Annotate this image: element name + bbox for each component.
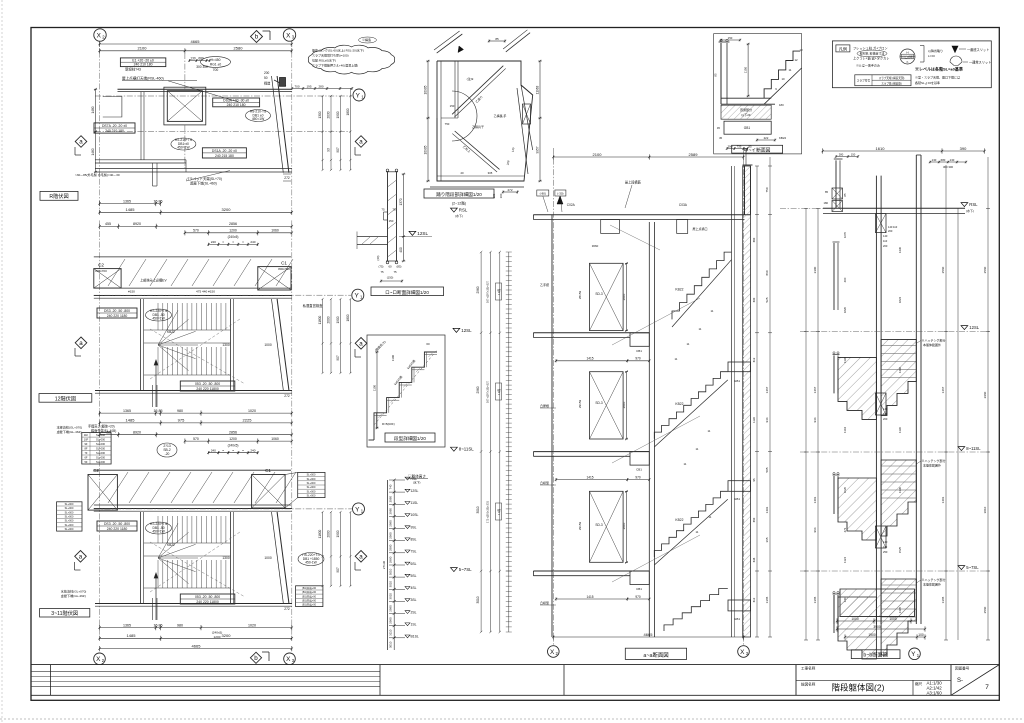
plan 12F: hatched landing band	[94, 256, 291, 258]
plan 12F: bottom dim row1	[100, 412, 292, 414]
svg-text:CB1: CB1	[636, 349, 642, 353]
svg-text:RSL: RSL	[459, 208, 468, 213]
svg-text:240: 240	[250, 240, 255, 244]
landing detail: main outline	[437, 61, 533, 181]
svg-text:SL+000: SL+000	[96, 460, 106, 464]
svg-text:C1: C1	[265, 468, 271, 473]
svg-text:SL+000: SL+000	[65, 511, 74, 514]
svg-text:450=1W: 450=1W	[152, 316, 165, 320]
svg-text:1300: 1300	[318, 111, 322, 118]
svg-text:85: 85	[495, 37, 499, 41]
svg-text:(75): (75)	[379, 265, 384, 269]
svg-text:20: 20	[460, 171, 464, 175]
svg-text:3010: 3010	[389, 593, 393, 600]
plan R-floor: left room rectangle	[103, 97, 122, 118]
section b-b: central wall	[875, 176, 877, 624]
svg-text:11F: 11F	[84, 433, 89, 437]
svg-text:8920: 8920	[133, 222, 141, 226]
svg-text:9957: 9957	[536, 146, 540, 153]
svg-text:1000: 1000	[264, 556, 272, 560]
i-i detail: top small dims	[721, 39, 740, 41]
plan 3-11F: title label	[40, 609, 90, 618]
section a-a: right wall band hatched	[743, 166, 751, 637]
grid mark a left plan R	[75, 136, 87, 148]
svg-text:(B1)天端+00: (B1)天端+00	[302, 590, 317, 594]
section a-a: opening SD-3 middle	[590, 372, 624, 439]
svg-text:9SL: 9SL	[411, 525, 417, 529]
section a-a: -80/-30 tags	[537, 190, 549, 196]
section a-a: bottom label	[625, 648, 686, 659]
svg-text:455: 455	[105, 222, 111, 226]
svg-text:1365: 1365	[813, 596, 817, 603]
svg-text:1200: 1200	[229, 229, 237, 233]
legend: filled triangle slit symbol	[952, 46, 958, 53]
step detail: slope dotted line	[374, 350, 437, 425]
svg-text:110: 110	[883, 545, 888, 549]
svg-text:6SL: 6SL	[411, 562, 417, 566]
plan 12F: right dim chain	[322, 299, 324, 373]
svg-text:1415: 1415	[586, 357, 593, 361]
svg-text:(-80): (-80)	[540, 192, 546, 196]
svg-text:130: 130	[950, 158, 955, 162]
grid mark a left plan 3-11F	[75, 551, 87, 563]
svg-text:最上段横筋: 最上段横筋	[625, 180, 641, 185]
svg-text:130: 130	[190, 56, 196, 60]
svg-text:140: 140	[883, 407, 888, 411]
svg-text:1491: 1491	[765, 506, 769, 513]
svg-text:280: 280	[318, 84, 323, 88]
svg-text:>30~-85(外毛梨 水毛梨)=40~-30: >30~-85(外毛梨 水毛梨)=40~-30	[75, 172, 120, 177]
svg-text:a: a	[359, 139, 363, 146]
svg-text:X: X	[96, 656, 101, 663]
svg-text:2100: 2100	[138, 46, 148, 51]
svg-text:※():は一番手のみ: ※():は一番手のみ	[856, 63, 880, 68]
svg-text:85: 85	[825, 190, 828, 194]
svg-text:800x?00: 800x?00	[278, 267, 290, 271]
plan R-floor: title label	[40, 191, 78, 200]
svg-text:10: 10	[781, 77, 785, 81]
section a-a: stair flight 2	[654, 491, 728, 557]
svg-text:1130: 1130	[898, 427, 902, 433]
svg-text:フレッシュ柱 ガ+プロン: フレッシュ柱 ガ+プロン	[853, 46, 888, 51]
svg-text:240 215 180: 240 215 180	[215, 154, 234, 158]
svg-text:171+(201x13)+231: 171+(201x13)+231	[486, 500, 490, 522]
svg-text:#9159: #9159	[578, 399, 582, 408]
grid mark a left plan 12F	[75, 337, 87, 349]
svg-text:※構造: ※構造	[362, 37, 371, 42]
svg-text:R=5(R2F): R=5(R2F)	[382, 422, 395, 426]
revision cloud outline	[308, 45, 394, 74]
svg-text:C1: C1	[281, 261, 287, 266]
svg-text:75: 75	[393, 270, 397, 274]
svg-text:凸屋根: 凸屋根	[540, 403, 549, 408]
svg-text:860: 860	[765, 270, 769, 275]
svg-text:a: a	[359, 341, 363, 348]
svg-text:1415: 1415	[586, 475, 593, 479]
section b-b: left parapet beams	[832, 188, 843, 199]
svg-text:縮尺: 縮尺	[915, 681, 923, 686]
svg-text:700: 700	[213, 68, 219, 72]
i-i detail: beam GB1	[724, 121, 771, 134]
section a-a: right outer dim chain	[756, 166, 758, 637]
svg-text:X: X	[740, 649, 745, 656]
svg-text:305: 305	[488, 171, 493, 175]
landing detail: quarter circle arc	[452, 91, 477, 116]
svg-text:75: 75	[380, 270, 384, 274]
landing detail: roof cut diagonal right	[506, 33, 530, 52]
stair well walls	[140, 512, 142, 603]
step detail: stair profile	[374, 352, 437, 428]
svg-text:GB1: GB1	[734, 379, 740, 383]
section b-b: level line 12SL	[800, 330, 990, 332]
svg-text:スラブ下端筋押さえ+40(湿潤上端): スラブ下端筋押さえ+40(湿潤上端)	[312, 63, 358, 68]
landing detail: filled arrow	[458, 46, 464, 53]
svg-text:150: 150	[389, 219, 394, 223]
svg-text:1365: 1365	[123, 409, 131, 413]
svg-text:(B1)天端+00: (B1)天端+00	[302, 598, 317, 602]
plan R-floor: bottom dim 1365	[100, 203, 161, 205]
svg-text:2225: 2225	[243, 418, 253, 423]
svg-text:8SL: 8SL	[411, 538, 417, 542]
grid mark Y1 section b-b	[909, 648, 921, 660]
svg-text:280: 280	[839, 152, 844, 156]
landing detail: crossed box on slant	[523, 104, 531, 124]
svg-text:(注)9: (注)9	[467, 76, 474, 81]
svg-text:乙横兵干: 乙横兵干	[472, 124, 484, 129]
stair treads lower flight	[157, 347, 159, 375]
svg-text:9F: 9F	[84, 442, 87, 446]
svg-text:DS3 -20 -50 -800: DS3 -20 -50 -800	[104, 522, 130, 526]
svg-text:打口診断: 打口診断	[902, 55, 913, 59]
svg-text:11800: 11800	[318, 315, 322, 324]
section a-a: landing low right	[728, 600, 751, 611]
svg-text:A3:1/60: A3:1/60	[927, 690, 943, 695]
svg-text:C03A: C03A	[679, 203, 688, 207]
plan R-floor: secondary axis dash-dot	[95, 131, 350, 133]
grid mark X3 section a-a	[738, 646, 750, 658]
level chain: level ticks and labels	[389, 479, 405, 481]
plan 3-11F: level table top-left	[82, 433, 111, 464]
title block center divider	[563, 665, 565, 696]
i-i detail: landing slab	[721, 97, 771, 99]
svg-text:740: 740	[389, 484, 393, 489]
svg-text:1900: 1900	[336, 530, 340, 537]
section a-a: level mark RSL	[451, 208, 458, 212]
svg-text:1330: 1330	[898, 486, 902, 493]
plan 3-11F: level table bottom-right	[296, 586, 323, 607]
svg-text:遮蔽下端(SL-460): 遮蔽下端(SL-460)	[190, 181, 217, 186]
svg-text:乙構長,手: 乙構長,手	[494, 113, 507, 118]
svg-text:SL+000: SL+000	[65, 524, 74, 527]
i-i detail: stairs	[764, 51, 800, 98]
svg-text:10SL: 10SL	[411, 513, 419, 517]
svg-text:11963: 11963	[536, 85, 540, 94]
plan top dims row2 570/1200/1060	[185, 232, 292, 234]
plan 3-11F: bottom dim row3 4665	[100, 648, 292, 650]
ro-ro section: base circles	[386, 261, 389, 264]
plan 3-11F: bottom dim row1	[100, 627, 292, 629]
plan R-floor: shaft upper dims 130/680/130	[189, 60, 210, 62]
svg-text:1430: 1430	[898, 246, 902, 253]
svg-text:SL+000: SL+000	[96, 433, 106, 437]
landing detail: bottom landing lines	[437, 175, 524, 177]
grid mark Y1 plan 3-11F	[353, 503, 365, 515]
svg-text:1485: 1485	[126, 207, 136, 212]
svg-text:167+(197x13)=227: 167+(197x13)=227	[486, 280, 490, 302]
svg-text:一番底スリット: 一番底スリット	[967, 47, 989, 52]
plan top dims row2 570/1200/1060	[185, 440, 292, 442]
svg-text:75: 75	[381, 208, 385, 212]
svg-text:15 85: 15 85	[154, 199, 163, 203]
svg-text:272: 272	[507, 188, 512, 192]
svg-text:200: 200	[264, 71, 270, 75]
section a-a: stair flight top (12F to roof)	[672, 252, 732, 319]
svg-text:CB1: CB1	[636, 468, 642, 472]
svg-text:150: 150	[728, 36, 733, 40]
section b-b: roof slab RSL	[823, 207, 965, 209]
svg-text:450=1W: 450=1W	[177, 145, 190, 149]
svg-text:240 210 180: 240 210 180	[227, 103, 246, 107]
svg-text:240 210 180: 240 210 180	[134, 63, 153, 67]
svg-text:#150: #150	[128, 290, 135, 294]
section b-b: left wall stub	[833, 355, 835, 393]
svg-text:=: =	[222, 240, 224, 244]
plan 12F: column C1 crossed box	[258, 267, 291, 290]
plan R-floor: oval label DB1 center	[171, 138, 196, 150]
svg-text:1SL: 1SL	[411, 623, 417, 627]
svg-text:SD-3: SD-3	[595, 401, 602, 405]
svg-text:Y: Y	[354, 293, 359, 300]
svg-text:1124: 1124	[843, 557, 847, 563]
legend: hanrei title box	[836, 45, 850, 52]
plan R-floor: X2/X3 axis lines	[99, 41, 101, 213]
svg-text:1467: 1467	[941, 386, 945, 393]
svg-text:1130: 1130	[752, 417, 756, 423]
svg-text:390: 390	[960, 146, 967, 151]
svg-text:本躯体範囲外: 本躯体範囲外	[923, 342, 941, 347]
svg-text:10905: 10905	[424, 85, 428, 94]
svg-text:6F: 6F	[84, 456, 87, 460]
plan 3-11F: label table bottom	[180, 594, 235, 604]
svg-text:95: 95	[752, 478, 756, 481]
plan 12F: bottom dim row2	[100, 422, 292, 424]
svg-text:※室・スラブ天端、開口下端には: ※室・スラブ天端、開口下端には	[915, 75, 960, 80]
svg-text:195: 195	[306, 84, 311, 88]
svg-text:15 85: 15 85	[154, 409, 163, 413]
svg-text:3900: 3900	[873, 625, 881, 629]
svg-text:1401: 1401	[941, 496, 945, 503]
svg-text:12階伏図: 12階伏図	[55, 394, 76, 402]
svg-text:(B1)天端+00: (B1)天端+00	[302, 586, 317, 590]
svg-text:本躯体範囲外: 本躯体範囲外	[923, 582, 941, 587]
svg-text:SL+000: SL+000	[65, 528, 74, 531]
svg-text:450=1W: 450=1W	[152, 529, 165, 533]
svg-text:450=1W: 450=1W	[252, 117, 265, 121]
svg-text:(-30): (-30)	[557, 192, 563, 196]
plan 12F: title label	[39, 394, 92, 403]
plan R-floor: right dim chain verticals	[322, 96, 324, 170]
section a-a: level mark 12SL	[453, 328, 460, 332]
stair dashed guide lines	[150, 319, 240, 379]
svg-text:400: 400	[399, 247, 403, 253]
svg-text:CB1: CB1	[636, 587, 642, 591]
svg-text:3010: 3010	[983, 506, 987, 513]
svg-text:1020: 1020	[248, 623, 256, 627]
svg-text:700: 700	[294, 84, 299, 88]
svg-text:貫通部分: 貫通部分	[740, 107, 752, 112]
legend: symbol circle	[900, 49, 915, 64]
svg-text:1820: 1820	[843, 306, 847, 313]
svg-text:11: 11	[696, 447, 699, 451]
svg-text:H: H	[906, 51, 908, 55]
svg-text:(40): (40)	[376, 255, 380, 260]
svg-text:S-: S-	[957, 678, 963, 684]
section b-b: step lines inside right block	[881, 584, 916, 586]
svg-text:970: 970	[635, 475, 641, 479]
svg-text:スラブ符号: スラブ符号	[857, 79, 871, 83]
svg-text:3~11階伏図: 3~11階伏図	[51, 609, 78, 617]
landing detail: diagonal brace lower	[455, 131, 500, 169]
stair dashed guide lines	[150, 532, 240, 592]
svg-text:B1SL: B1SL	[411, 635, 419, 639]
svg-text:1365: 1365	[123, 623, 131, 627]
svg-text:#9159: #9159	[578, 521, 582, 530]
svg-text:3010: 3010	[389, 641, 393, 648]
svg-text:10F: 10F	[84, 438, 89, 442]
svg-text:27130: 27130	[382, 560, 386, 569]
svg-text:スラブ天端増打ち厚(t=100): スラブ天端増打ち厚(t=100)	[312, 53, 349, 58]
svg-text:150: 150	[450, 104, 455, 108]
svg-text:2000: 2000	[327, 316, 331, 323]
section a-a: grid axes dash-dot	[552, 148, 554, 645]
landing detail: diagonal brace upper	[452, 66, 503, 115]
section b-b: level line 5-7SL	[800, 570, 990, 572]
svg-text:975: 975	[178, 418, 185, 423]
plan top dims row3 240 repeats	[208, 452, 257, 454]
svg-text:(水下): (水下)	[455, 213, 463, 218]
grid mark X2 bottom-left	[94, 653, 106, 665]
plan top dims row1 455/920/2856	[100, 434, 292, 436]
svg-text:907: 907	[336, 355, 340, 361]
svg-text:SL+000: SL+000	[96, 451, 106, 455]
svg-text:GB1: GB1	[734, 497, 740, 501]
svg-text:11: 11	[699, 327, 702, 331]
svg-text:C02A: C02A	[567, 203, 576, 207]
svg-text:2000: 2000	[327, 530, 331, 537]
svg-text:1100: 1100	[373, 385, 377, 392]
section a-a: landing edge line right	[731, 166, 733, 637]
svg-text:凡例: 凡例	[839, 45, 847, 52]
section a-a: opening SD-3 lower	[590, 491, 624, 562]
stair UP arrow	[155, 574, 157, 620]
section a-a: leader diagonals	[612, 298, 700, 345]
svg-text:600: 600	[752, 297, 756, 302]
svg-text:7F: 7F	[84, 451, 87, 455]
ro-ro section: mid notch	[384, 211, 388, 213]
svg-text:240: 240	[250, 449, 255, 453]
svg-text:2980: 2980	[389, 496, 393, 503]
svg-text:3200: 3200	[222, 633, 232, 638]
svg-text:471: 471	[843, 527, 847, 532]
section a-a: floor slab	[533, 332, 649, 334]
step detail: tread double lines	[374, 414, 387, 416]
svg-text:構造: 構造	[264, 81, 271, 86]
section b-b: left wall stub	[833, 476, 835, 514]
landing detail: left dim line	[427, 61, 429, 181]
plan 3-11F: hatched landing band	[94, 469, 291, 471]
svg-text:1365: 1365	[123, 199, 131, 203]
section b-b: step lines inside right block	[881, 344, 916, 346]
svg-text:8920: 8920	[133, 431, 141, 435]
svg-text:240 220 1180: 240 220 1180	[107, 314, 128, 318]
step detail: title label	[385, 433, 435, 442]
svg-text:1 0階: 1 0階	[497, 508, 501, 515]
plan R-floor: parapet walls bottom	[95, 159, 186, 161]
svg-text:5SL: 5SL	[411, 574, 417, 578]
section b-b: wall crossed joints	[876, 214, 887, 233]
svg-text:272: 272	[284, 394, 290, 398]
ro-ro section: title label	[371, 287, 444, 296]
svg-text:2560: 2560	[941, 266, 945, 273]
svg-text:45: 45	[717, 126, 721, 130]
svg-text:スラブ天端 (構造天国): スラブ天端 (構造天国)	[879, 76, 905, 80]
section b-b: left parapet	[835, 160, 837, 208]
svg-text:RSL: RSL	[969, 202, 978, 207]
svg-text:1467: 1467	[813, 386, 817, 393]
svg-text:970: 970	[635, 357, 641, 361]
section a-a: landing mid right	[728, 481, 751, 492]
svg-text:11: 11	[687, 342, 690, 346]
svg-text:2589: 2589	[689, 152, 699, 157]
section b-b: left wall stub	[833, 595, 835, 633]
i-i detail: bottom dims	[757, 139, 775, 141]
svg-text:Y: Y	[355, 506, 360, 513]
svg-text:R階伏図: R階伏図	[49, 192, 68, 200]
svg-text:10905: 10905	[424, 145, 428, 154]
svg-text:2030: 2030	[327, 111, 331, 118]
svg-text:907: 907	[336, 147, 340, 153]
svg-text:各階SLょ±0を基準: 各階SLょ±0を基準	[915, 80, 940, 85]
svg-text:4SL: 4SL	[411, 586, 417, 590]
svg-text:水抜泊柱(GL+070): 水抜泊柱(GL+070)	[61, 589, 87, 594]
svg-text:140: 140	[883, 540, 888, 544]
landing detail: top dim	[489, 40, 505, 42]
svg-text:上クラレ+筋 返+タクカレ: 上クラレ+筋 返+タクカレ	[853, 55, 889, 60]
i-i detail: hatched band below slab	[721, 105, 771, 119]
svg-text:(150): (150)	[387, 276, 394, 280]
svg-text:944: 944	[813, 417, 817, 422]
svg-text:Y: Y	[356, 92, 361, 99]
section b-b: hatched flight right of wall	[881, 460, 916, 536]
grid mark a right plan 12F	[355, 338, 367, 350]
svg-text:=: =	[232, 449, 234, 453]
svg-text:DS7A -20 -20 ±0: DS7A -20 -20 ±0	[102, 124, 127, 128]
svg-text:KB22: KB22	[167, 330, 175, 334]
plan 12F: right slanted wall	[277, 299, 289, 390]
svg-text:(B1)天端+00: (B1)天端+00	[302, 603, 317, 607]
plan 3-11F: oval HS-220	[146, 522, 172, 534]
svg-text:3010: 3010	[389, 568, 393, 575]
svg-text:図面番号: 図面番号	[955, 666, 970, 671]
svg-text:1000: 1000	[264, 343, 272, 347]
svg-text:1 9階: 1 9階	[497, 288, 501, 295]
plan R-floor: dark beam blob top right	[280, 78, 286, 87]
svg-text:11: 11	[684, 462, 687, 466]
level chain: main vertical lines	[393, 480, 395, 650]
svg-text:5~7SL: 5~7SL	[966, 565, 979, 570]
svg-text:5F: 5F	[84, 460, 87, 464]
svg-text:KB22: KB22	[675, 402, 683, 406]
